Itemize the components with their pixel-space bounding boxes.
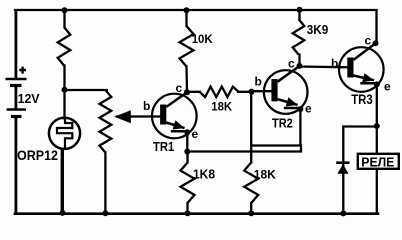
svg-text:1K8: 1K8: [193, 167, 215, 182]
svg-text:TR2: TR2: [272, 115, 293, 130]
svg-text:18K: 18K: [254, 167, 276, 181]
svg-text:ORP12: ORP12: [17, 147, 58, 163]
svg-text:b: b: [331, 57, 338, 71]
svg-text:e: e: [305, 102, 312, 116]
svg-text:c: c: [365, 34, 372, 48]
svg-text:e: e: [192, 127, 199, 141]
svg-text:c: c: [288, 57, 295, 71]
svg-text:TR1: TR1: [153, 140, 174, 154]
svg-text:b: b: [143, 99, 150, 113]
svg-text:12V: 12V: [18, 91, 40, 106]
svg-text:e: e: [384, 80, 391, 94]
svg-text:18K: 18K: [211, 99, 232, 113]
svg-text:РЕЛЕ: РЕЛЕ: [361, 154, 394, 169]
svg-text:10K: 10K: [192, 32, 213, 46]
svg-text:3K9: 3K9: [307, 22, 329, 37]
svg-text:b: b: [255, 75, 262, 89]
svg-text:c: c: [176, 81, 183, 95]
svg-text:TR3: TR3: [351, 92, 373, 107]
